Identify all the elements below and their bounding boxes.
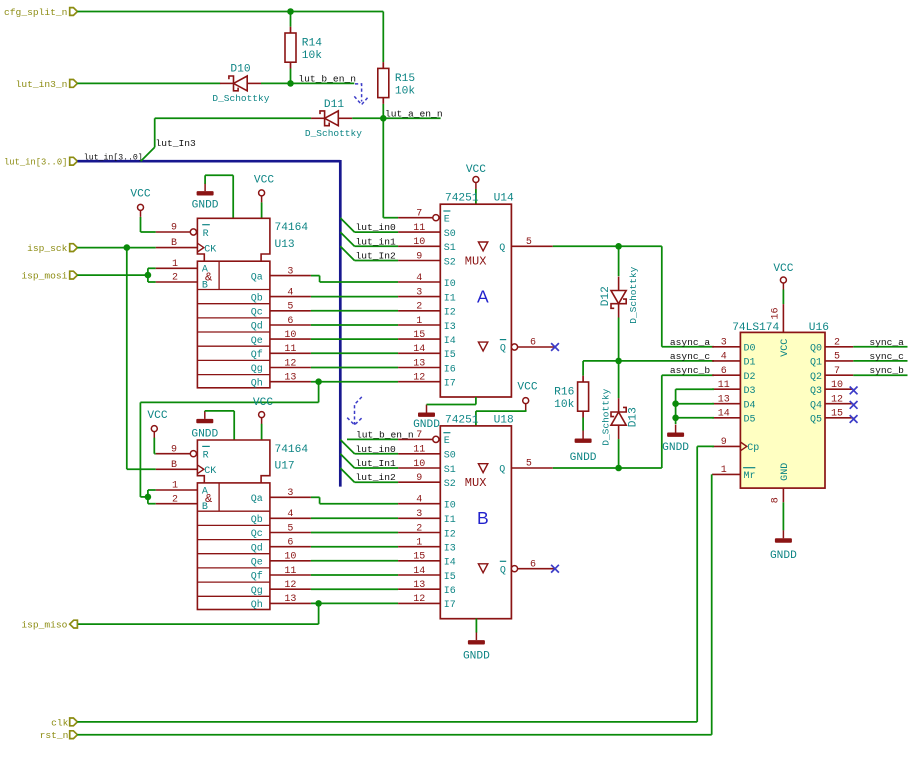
svg-text:15: 15	[413, 552, 425, 563]
U17 pin Qf, pin 11	[270, 574, 311, 576]
svg-text:Qh: Qh	[251, 377, 263, 389]
svg-text:2: 2	[416, 523, 422, 534]
svg-text:I3: I3	[444, 322, 456, 333]
wire VCC to U18 pin 16	[525, 410, 527, 412]
svg-text:2: 2	[172, 494, 178, 505]
U14 pin S1, pin 10	[398, 245, 440, 247]
diode D11 D_Schottky	[320, 111, 329, 126]
power symbol GNDD above U13	[204, 183, 206, 191]
U18 pin Q output, pin 5	[511, 467, 552, 469]
U16 pin 16 VCC	[782, 304, 784, 332]
wire VCC to U17 R pin	[153, 438, 155, 454]
svg-text:MUX: MUX	[465, 476, 487, 490]
power symbol VCC right of U18	[523, 398, 529, 404]
U13 pin CK (clock), pin B	[156, 247, 198, 249]
U14 pin I2, pin 2	[398, 310, 440, 312]
svg-text:clk: clk	[51, 717, 69, 728]
U16 pin Q4, pin 12	[825, 403, 853, 405]
junction D4 tie	[672, 400, 679, 407]
svg-text:GNDD: GNDD	[662, 442, 689, 454]
U13 pin R (reset) with bubble, pin 9	[156, 231, 191, 233]
U17 pin R (reset) with bubble, pin 9	[156, 453, 191, 455]
junction lut_a_en_n node	[380, 115, 387, 122]
svg-text:14: 14	[718, 409, 730, 420]
svg-text:Q: Q	[500, 565, 506, 576]
U16 pin D4, pin 13	[712, 403, 740, 405]
power symbol GNDD below U18	[475, 632, 477, 640]
svg-text:lut_b_en_n: lut_b_en_n	[356, 429, 414, 440]
diode D13 D_Schottky (cathode up)	[611, 407, 626, 416]
U18 pin I3, pin 1	[398, 546, 440, 548]
no-connect on U16 Q3	[850, 387, 858, 395]
U16 pin 8 GND	[782, 488, 784, 502]
svg-text:lut_a_en_n: lut_a_en_n	[385, 108, 443, 119]
svg-text:Q: Q	[499, 465, 505, 476]
svg-text:Qc: Qc	[251, 529, 263, 540]
svg-text:isp_mosi: isp_mosi	[21, 271, 67, 282]
wire async_a riser	[661, 246, 663, 346]
svg-text:5: 5	[526, 459, 532, 470]
U13 pin B input, pin 2	[156, 281, 198, 283]
svg-text:Qa: Qa	[251, 494, 263, 505]
svg-text:74251: 74251	[445, 414, 479, 426]
wire sync_a output	[853, 346, 907, 348]
svg-text:&: &	[205, 492, 212, 506]
svg-text:D_Schottky: D_Schottky	[628, 266, 639, 323]
U14 pin I6, pin 13	[398, 367, 440, 369]
svg-text:I4: I4	[444, 558, 456, 569]
svg-text:4: 4	[721, 352, 727, 363]
wire U13 output to U14 input	[311, 367, 398, 369]
U13 pin Qg, pin 12	[270, 367, 311, 369]
svg-text:9: 9	[171, 223, 177, 234]
junction D12 top	[615, 243, 622, 250]
U17 pin Qc, pin 5	[270, 532, 311, 534]
svg-text:GNDD: GNDD	[570, 452, 597, 464]
U17 pin B input, pin 2	[156, 503, 198, 505]
svg-text:Q4: Q4	[810, 401, 822, 412]
power symbol VCC above U13	[259, 190, 265, 196]
wire sync_b output	[853, 374, 907, 376]
svg-text:13: 13	[413, 358, 425, 369]
svg-text:sync_b: sync_b	[869, 365, 904, 376]
svg-text:D5: D5	[744, 415, 756, 426]
svg-text:Q0: Q0	[810, 344, 822, 355]
wire cascade U13 Qh down-around to U17 A/B	[318, 382, 320, 403]
svg-text:15: 15	[831, 409, 843, 420]
svg-text:I6: I6	[444, 364, 456, 375]
svg-text:9: 9	[171, 444, 177, 455]
svg-text:U16: U16	[809, 322, 829, 334]
junction D13 bottom	[615, 465, 622, 472]
power symbol VCC above U17	[259, 412, 265, 418]
U14 pin Q-bar output with bubble, pin 6, no-connect	[478, 342, 487, 351]
svg-text:B: B	[477, 508, 489, 528]
U16 pin D3, pin 11	[712, 388, 740, 390]
wire VCC to U13 VCC pin	[261, 202, 263, 218]
register U16 74LS174 body	[740, 332, 825, 488]
wire U14 GND pin to GNDD	[475, 397, 477, 405]
junction U13 Qh cascade	[315, 378, 322, 385]
wire U16 GND to GNDD	[782, 502, 784, 530]
U16 pin Mr reset, pin 1	[712, 473, 740, 475]
U18 pin I4, pin 15	[398, 560, 440, 562]
svg-text:5: 5	[287, 302, 293, 313]
svg-text:7: 7	[416, 430, 422, 441]
U16 pin Q5, pin 15	[825, 417, 853, 419]
svg-text:2: 2	[416, 302, 422, 313]
svg-text:cfg_split_n: cfg_split_n	[4, 7, 67, 18]
svg-text:VCC: VCC	[517, 381, 537, 393]
wire R14 top stub	[290, 12, 292, 27]
svg-text:I3: I3	[444, 544, 456, 555]
hierarchical label cfg_split_n	[70, 8, 78, 16]
svg-text:R16: R16	[554, 387, 574, 399]
svg-text:9: 9	[416, 251, 422, 262]
svg-text:4: 4	[287, 509, 293, 520]
wire R16 bottom to GNDD	[582, 418, 584, 431]
svg-text:S2: S2	[444, 257, 456, 268]
wire U17 output to U18 input	[311, 546, 398, 548]
svg-text:lut_in1: lut_in1	[356, 236, 397, 247]
svg-text:Q: Q	[500, 344, 506, 355]
wire U17 output to U18 input	[311, 560, 398, 562]
power symbol GNDD below U16	[782, 530, 784, 538]
svg-text:lut_in3_n: lut_in3_n	[16, 79, 68, 90]
svg-text:I1: I1	[444, 293, 456, 304]
svg-text:6: 6	[287, 538, 293, 549]
wire U13 Qh to U14 I7	[311, 381, 398, 383]
svg-text:74164: 74164	[275, 444, 309, 456]
svg-text:Qf: Qf	[251, 349, 263, 361]
U16 pin Q3, pin 10	[825, 388, 853, 390]
diode D12 D_Schottky (cathode down)	[611, 299, 626, 308]
wire GNDD to U13 GND pin	[204, 175, 206, 184]
wire R15 top stub	[382, 12, 384, 63]
svg-text:2: 2	[172, 273, 178, 284]
svg-text:Qf: Qf	[251, 571, 263, 583]
U16 pin D2, pin 6	[712, 374, 740, 376]
U17 pin Qb, pin 4	[270, 517, 311, 519]
svg-text:CK: CK	[204, 244, 216, 255]
svg-text:VCC: VCC	[780, 339, 791, 357]
U16 pin Q2, pin 7	[825, 374, 853, 376]
U14 pin S0, pin 11	[398, 231, 440, 233]
svg-text:VCC: VCC	[466, 164, 486, 176]
svg-text:13: 13	[284, 373, 296, 384]
U16 pin D0, pin 3	[712, 346, 740, 348]
wire clk to U16 Cp	[77, 721, 697, 723]
svg-text:Qd: Qd	[251, 542, 263, 554]
svg-text:7: 7	[416, 208, 422, 219]
wire R14 bottom to lut_b_en_n node	[290, 69, 292, 84]
svg-text:D_Schottky: D_Schottky	[600, 388, 611, 445]
wire U17 output to U18 input	[311, 532, 398, 534]
hierarchical label clk	[70, 718, 78, 726]
svg-text:U13: U13	[275, 239, 295, 251]
svg-text:1: 1	[416, 538, 422, 549]
dashed note arrow from lut_b_en_n pointing down	[355, 84, 362, 102]
svg-text:Qd: Qd	[251, 321, 263, 333]
svg-text:D_Schottky: D_Schottky	[305, 128, 362, 139]
svg-text:6: 6	[287, 316, 293, 327]
svg-text:VCC: VCC	[147, 410, 167, 422]
power symbol GNDD below R16	[582, 431, 584, 439]
svg-text:6: 6	[721, 366, 727, 377]
svg-text:3: 3	[287, 488, 293, 499]
svg-text:D11: D11	[324, 99, 344, 111]
svg-text:10: 10	[284, 552, 296, 563]
wire VCC to U14 pin 16	[475, 189, 477, 204]
svg-text:9: 9	[416, 473, 422, 484]
svg-text:Q5: Q5	[810, 415, 822, 426]
svg-text:D3: D3	[744, 386, 756, 397]
wire sync_c output	[853, 360, 907, 362]
svg-text:&: &	[205, 270, 212, 284]
svg-text:lut_In2: lut_In2	[356, 251, 397, 262]
U16 pin Q0, pin 2	[825, 346, 853, 348]
svg-text:D10: D10	[230, 64, 250, 76]
svg-text:U14: U14	[494, 193, 514, 205]
svg-text:VCC: VCC	[130, 188, 150, 200]
power symbol VCC at U17 reset	[151, 426, 157, 432]
svg-text:Cp: Cp	[747, 443, 759, 454]
power symbol GNDD for D3-D5 ties	[675, 425, 677, 433]
wire isp_mosi vertical joining pins A and B	[147, 268, 149, 282]
wire lut_In3 vertical	[154, 118, 156, 147]
svg-text:6: 6	[530, 559, 536, 570]
svg-text:12: 12	[413, 373, 425, 384]
svg-text:5: 5	[526, 237, 532, 248]
U14 pin E (enable) with bubble, pin 7	[398, 217, 433, 219]
svg-text:lut_in0: lut_in0	[356, 222, 397, 233]
resistor R14 10k	[290, 27, 292, 33]
U13 pin Qa, pin 3	[270, 275, 311, 277]
svg-text:Mr: Mr	[744, 471, 756, 482]
svg-text:S1: S1	[444, 243, 456, 254]
svg-text:10: 10	[413, 237, 425, 248]
wire lut_In3 to D11	[155, 117, 312, 119]
svg-text:D12: D12	[600, 286, 612, 306]
svg-text:Qe: Qe	[251, 336, 263, 347]
U18 pin I0, pin 4	[398, 503, 440, 505]
svg-text:Qc: Qc	[251, 308, 263, 319]
U14 pin Q output, pin 5	[511, 245, 552, 247]
svg-text:3: 3	[721, 338, 727, 349]
svg-text:10k: 10k	[395, 86, 415, 98]
U18 pin I2, pin 2	[398, 532, 440, 534]
no-connect on U16 Q4	[850, 401, 858, 409]
U14 pin I0, pin 4	[398, 281, 440, 283]
svg-text:I0: I0	[444, 501, 456, 512]
junction U17 Qh / isp_miso	[315, 600, 322, 607]
resistor R16 10k	[582, 376, 584, 382]
wire VCC to U17 VCC pin	[261, 424, 263, 440]
diode D10 D_Schottky	[229, 76, 238, 91]
svg-text:11: 11	[413, 223, 425, 234]
bus entry for lut_In3	[141, 147, 155, 161]
svg-text:Qb: Qb	[251, 514, 263, 526]
svg-text:10: 10	[831, 380, 843, 391]
svg-text:GNDD: GNDD	[191, 428, 218, 440]
U18 pin I7, pin 12	[398, 602, 440, 604]
svg-text:I0: I0	[444, 279, 456, 290]
svg-text:74251: 74251	[445, 193, 479, 205]
wire cfg_split_n horizontal	[77, 11, 383, 13]
svg-text:R14: R14	[302, 38, 322, 50]
svg-text:2: 2	[834, 338, 840, 349]
svg-text:1: 1	[172, 481, 178, 492]
svg-text:13: 13	[718, 395, 730, 406]
svg-text:4: 4	[287, 287, 293, 298]
svg-text:lut_in2: lut_in2	[356, 472, 397, 483]
hierarchical label lut_in3_n	[70, 80, 78, 88]
svg-text:CK: CK	[204, 466, 216, 477]
svg-text:10: 10	[284, 330, 296, 341]
svg-text:GND: GND	[780, 463, 791, 481]
svg-text:13: 13	[413, 580, 425, 591]
svg-text:4: 4	[416, 495, 422, 506]
svg-text:11: 11	[284, 344, 296, 355]
dashed note arrow above lut_b_en_n pointing down	[355, 397, 362, 425]
junction async_c	[615, 358, 622, 365]
svg-text:B: B	[171, 460, 177, 471]
svg-text:sync_a: sync_a	[869, 337, 904, 348]
wire async_c to R16	[582, 361, 584, 376]
svg-text:5: 5	[287, 523, 293, 534]
svg-text:Q: Q	[499, 243, 505, 254]
wire isp_mosi to U13 A/B	[77, 274, 147, 276]
resistor R15 10k	[382, 62, 384, 68]
svg-text:GNDD: GNDD	[192, 200, 219, 212]
bus entries into U14 selects	[340, 218, 354, 232]
svg-text:12: 12	[284, 580, 296, 591]
svg-text:lut_in[3..0]: lut_in[3..0]	[84, 152, 143, 162]
shift register U17 74164 body	[197, 440, 270, 483]
hierarchical label isp_miso	[70, 620, 78, 628]
wire lut_in0 to U14 S0	[355, 231, 399, 233]
svg-text:VCC: VCC	[773, 263, 793, 275]
wire U14 Q to async_a riser	[553, 245, 662, 247]
svg-text:I2: I2	[444, 308, 456, 319]
wire lut_In2 to U14 S2	[355, 260, 399, 262]
U17 pin Qe, pin 10	[270, 560, 311, 562]
svg-text:rst_n: rst_n	[40, 730, 69, 741]
U16 pin Cp clock, pin 9	[712, 445, 740, 447]
U17 pin CK (clock), pin B	[156, 468, 198, 470]
wire VCC to U13 R pin	[140, 217, 142, 232]
svg-text:15: 15	[413, 330, 425, 341]
wire U18 Q to async_b riser	[553, 467, 662, 469]
U17 pin A input, pin 1	[156, 489, 198, 491]
svg-text:S1: S1	[444, 465, 456, 476]
U14 pin I1, pin 3	[398, 296, 440, 298]
svg-text:74LS174: 74LS174	[732, 322, 779, 334]
svg-text:async_c: async_c	[670, 351, 711, 362]
wire U17 output to U18 input	[311, 517, 398, 519]
svg-text:U18: U18	[494, 414, 514, 426]
junction at R14 top	[287, 8, 294, 15]
svg-text:1: 1	[172, 259, 178, 270]
svg-text:74164: 74164	[275, 222, 309, 234]
svg-text:Qg: Qg	[251, 586, 263, 597]
power symbol VCC at U13 reset	[138, 204, 144, 210]
svg-text:GNDD: GNDD	[770, 550, 797, 562]
U18 pin S0, pin 11	[398, 453, 440, 455]
svg-text:S0: S0	[444, 229, 456, 240]
svg-text:10k: 10k	[554, 399, 574, 411]
svg-text:6: 6	[530, 338, 536, 349]
hierarchical label isp_mosi	[70, 271, 78, 279]
wire isp_miso from U17 Qh	[318, 603, 320, 624]
wire U17 output to U18 input	[311, 574, 398, 576]
svg-text:D0: D0	[744, 344, 756, 355]
U14 pin I5, pin 14	[398, 352, 440, 354]
wire U17 Qa to U18 I0 with jog	[311, 496, 320, 498]
svg-text:I7: I7	[444, 379, 456, 390]
wire D13 cathode from async_c	[618, 361, 620, 398]
svg-text:16: 16	[771, 307, 782, 319]
svg-text:I5: I5	[444, 350, 456, 361]
U17 pin Qg, pin 12	[270, 588, 311, 590]
wire rst_n to U16 Mr	[77, 734, 711, 736]
svg-text:D2: D2	[744, 372, 756, 383]
wire U17 output to U18 input	[311, 588, 398, 590]
svg-text:10k: 10k	[302, 50, 322, 62]
svg-text:lut_in0: lut_in0	[356, 444, 397, 455]
svg-text:3: 3	[416, 287, 422, 298]
U13 pin Qd, pin 6	[270, 324, 311, 326]
svg-text:D13: D13	[628, 407, 640, 427]
svg-text:isp_miso: isp_miso	[21, 620, 67, 631]
svg-text:Qg: Qg	[251, 364, 263, 375]
svg-text:12: 12	[831, 395, 843, 406]
power symbol GNDD below U14	[426, 405, 428, 413]
wire isp_sck to U13 CK	[77, 247, 155, 249]
wire U13 output to U14 input	[311, 310, 398, 312]
svg-text:U17: U17	[275, 461, 295, 473]
svg-text:5: 5	[834, 352, 840, 363]
U18 pin I5, pin 14	[398, 574, 440, 576]
wire lut_in3_n to D10	[77, 82, 220, 84]
svg-text:E: E	[444, 214, 450, 225]
svg-text:B: B	[171, 238, 177, 249]
svg-text:3: 3	[287, 266, 293, 277]
svg-text:S2: S2	[444, 479, 456, 490]
svg-text:3: 3	[416, 509, 422, 520]
wire U17 Qh to U18 I7	[311, 602, 398, 604]
power symbol VCC above U16	[780, 277, 786, 283]
U13 pin Qe, pin 10	[270, 338, 311, 340]
svg-text:14: 14	[413, 344, 425, 355]
svg-text:1: 1	[721, 465, 727, 476]
wire U13 output to U14 input	[311, 324, 398, 326]
wire lut_a_en_n stub right	[383, 117, 440, 119]
junction isp_mosi	[145, 272, 152, 279]
svg-text:11: 11	[718, 380, 730, 391]
U14 pin I7, pin 12	[398, 381, 440, 383]
U13 pin A input, pin 1	[156, 267, 198, 269]
svg-text:GNDD: GNDD	[463, 650, 490, 662]
svg-text:11: 11	[413, 445, 425, 456]
svg-text:S0: S0	[444, 451, 456, 462]
wire GNDD to U17 GND pin	[204, 410, 206, 413]
multiplexer U18 74251 body	[440, 426, 511, 619]
U13 pin Qf, pin 11	[270, 352, 311, 354]
wire lut_b_en_n to U18 E	[347, 438, 398, 440]
wire VCC to U16 pin 16	[782, 290, 784, 305]
wire D13 anode to U18 Q	[618, 439, 620, 468]
